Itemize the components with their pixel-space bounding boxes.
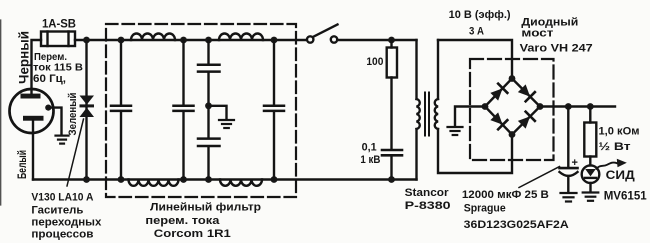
capacitor C3 lower <box>198 139 220 180</box>
svg-text:мост: мост <box>521 28 554 40</box>
svg-text:Зеленый: Зеленый <box>67 93 79 136</box>
node C3 mid <box>205 102 212 109</box>
node varistor top <box>83 37 90 44</box>
wire fuse to switch (top rail) <box>75 39 307 41</box>
node varistor bottom <box>83 176 90 183</box>
node bottom 1 <box>118 176 125 183</box>
svg-text:1 кВ: 1 кВ <box>360 154 380 166</box>
svg-text:100: 100 <box>366 56 383 68</box>
ground filter <box>219 120 234 128</box>
wire switch to transformer <box>337 39 416 41</box>
svg-text:Диодный: Диодный <box>521 17 578 29</box>
svg-text:12000 мкФ 25 В: 12000 мкФ 25 В <box>462 189 549 201</box>
node bottom 3 <box>205 176 212 183</box>
wire secondary bottom to bridge <box>438 129 512 173</box>
wire green to ground <box>48 108 61 134</box>
svg-text:Линейный фильтр: Линейный фильтр <box>150 201 261 213</box>
capacitor C3 upper <box>198 40 220 138</box>
diode D4 lower-right <box>517 112 535 130</box>
node R1 top <box>388 37 395 44</box>
LED D5 MV6151 <box>582 165 600 191</box>
node bridge top <box>509 75 516 82</box>
AC plug P1 <box>10 89 54 133</box>
node top 3 <box>205 37 212 44</box>
svg-text:Р-8380: Р-8380 <box>405 200 451 212</box>
node top 1 <box>118 37 125 44</box>
node C6 bottom <box>388 176 395 183</box>
svg-text:1A-SB: 1A-SB <box>42 16 76 30</box>
svg-text:Stancor: Stancor <box>405 187 450 199</box>
inductor L4 bottom-right <box>220 180 262 186</box>
varistor RV1 V130LA10A <box>80 40 95 180</box>
bridge dashed box VH247 <box>470 59 554 160</box>
LED arrow <box>597 159 627 169</box>
resistor R2 1k <box>584 107 596 166</box>
wire secondary top to bridge <box>438 40 512 79</box>
scan edge <box>0 20 2 205</box>
node bottom 2 <box>180 176 187 183</box>
svg-text:Sprague: Sprague <box>464 203 506 215</box>
capacitor C2 <box>174 40 194 180</box>
leader capacitor label <box>519 167 560 188</box>
svg-text:MV6151: MV6151 <box>604 191 648 203</box>
svg-text:Corcom 1R1: Corcom 1R1 <box>154 228 231 240</box>
switch S1 <box>307 25 338 43</box>
node cap C7 top <box>565 103 572 110</box>
wire output rail <box>540 105 615 107</box>
svg-text:Гаситель: Гаситель <box>31 204 83 216</box>
svg-text:+: + <box>572 157 578 169</box>
diode D1 upper-left <box>490 84 508 102</box>
line filter dashed box <box>106 24 296 197</box>
svg-text:Черный: Черный <box>17 31 32 84</box>
wire to filter ground <box>209 106 227 119</box>
diode D3 lower-left <box>490 112 508 130</box>
svg-text:перем. тока: перем. тока <box>145 215 220 227</box>
node bridge bottom <box>509 131 516 138</box>
node top 4 <box>271 37 278 44</box>
ground green <box>56 136 69 144</box>
svg-text:Varo VH 247: Varo VH 247 <box>520 43 593 55</box>
diode D2 upper-right <box>517 84 535 102</box>
ground C7 <box>561 193 577 202</box>
svg-text:V130 LA10 A: V130 LA10 A <box>31 192 93 204</box>
svg-text:СИД: СИД <box>606 170 635 182</box>
node bottom 4 <box>271 176 278 183</box>
transformer T1 primary <box>417 40 420 180</box>
transformer T1 secondary <box>435 40 438 129</box>
node R2 top <box>587 103 594 110</box>
inductor L2 top-right <box>219 34 263 41</box>
capacitor C1 <box>111 40 131 180</box>
svg-text:процессов: процессов <box>31 228 93 240</box>
resistor R1 100 <box>387 40 397 149</box>
svg-text:½ Вт: ½ Вт <box>599 141 632 153</box>
inductor L1 top-left <box>131 34 175 41</box>
ground bridge <box>448 127 463 135</box>
node bridge right <box>537 103 544 110</box>
leader varistor label <box>67 119 84 186</box>
svg-text:10 В (эфф.): 10 В (эфф.) <box>449 9 511 21</box>
inductor L3 bottom-left <box>129 180 179 186</box>
node top 2 <box>180 37 187 44</box>
capacitor C6 0.1uF <box>382 150 402 180</box>
svg-text:1,0 кОм: 1,0 кОм <box>599 125 640 137</box>
wire bridge left to ground <box>455 107 485 127</box>
capacitor C7 electrolytic <box>560 107 578 193</box>
svg-text:Перем.: Перем. <box>34 52 67 63</box>
svg-text:0,1: 0,1 <box>362 142 377 154</box>
wire white: plug to bottom rail <box>32 121 34 180</box>
node bridge left <box>482 103 489 110</box>
wire bottom rail <box>33 178 417 180</box>
transformer T1 core <box>425 93 429 136</box>
svg-text:36D123G025AF2A: 36D123G025AF2A <box>464 219 569 231</box>
svg-text:Белый: Белый <box>15 150 29 179</box>
svg-text:3 А: 3 А <box>469 26 484 38</box>
bridge diamond <box>485 79 540 135</box>
svg-text:60 Гц,: 60 Гц, <box>33 73 66 85</box>
capacitor C4 <box>264 40 284 180</box>
svg-text:переходных: переходных <box>31 216 102 228</box>
fuse F1 1A-SB <box>41 32 75 47</box>
wire black: plug to fuse <box>32 40 42 94</box>
ground LED <box>583 193 599 201</box>
